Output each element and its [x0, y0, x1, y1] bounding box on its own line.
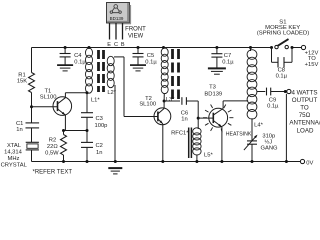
pin C leg of BD139 package — [115, 23, 117, 40]
wire C7 stem — [216, 48, 218, 54]
capacitor C7 — [211, 53, 222, 55]
wire bottom 0V rail — [32, 161, 301, 163]
svg-text:T3: T3 — [209, 84, 216, 90]
svg-text:ANTENNA/: ANTENNA/ — [289, 120, 320, 127]
svg-text:C2: C2 — [96, 143, 103, 149]
wire T1 emitter — [64, 115, 66, 131]
svg-text:MHz: MHz — [8, 156, 20, 162]
ground for C5 — [130, 64, 146, 66]
wire C4 stem — [64, 48, 66, 54]
terminal 0V — [300, 159, 304, 163]
svg-text:SL100: SL100 — [40, 95, 57, 101]
transistor package pictorial BD139 (front view) — [107, 3, 132, 25]
wire L2 top to T2 base — [114, 56, 124, 58]
node C2 bottom junction — [86, 160, 89, 163]
capacitor C9 — [266, 88, 268, 96]
wire crystal to bottom rail — [31, 150, 33, 162]
svg-text:1n: 1n — [96, 150, 102, 156]
svg-text:SL100: SL100 — [139, 101, 156, 107]
wire RFC1 drop — [197, 118, 199, 129]
wire L2 bottom to ground rail — [114, 85, 116, 162]
node T3 emitter junction — [220, 160, 223, 163]
inductor L3 winding — [161, 48, 168, 56]
svg-text:0.1µ: 0.1µ — [74, 59, 86, 65]
node C4 rail junction — [64, 46, 67, 49]
terminal output — [287, 89, 291, 93]
svg-text:0.1µ: 0.1µ — [267, 104, 279, 110]
wire L4 top stub — [250, 48, 252, 52]
transformer core 2 — [171, 49, 174, 59]
node R2 bottom junction — [62, 160, 65, 163]
ground for C7 — [208, 67, 226, 69]
svg-text:BD139: BD139 — [110, 16, 124, 21]
capacitor C5 — [133, 53, 144, 55]
svg-text:HEATSINK: HEATSINK — [226, 132, 252, 138]
resistor R2 — [61, 135, 67, 156]
wire C3 stem — [86, 93, 88, 113]
terminal +12V supply — [301, 45, 305, 49]
svg-text:XTAL: XTAL — [7, 143, 22, 149]
capacitor C6 — [181, 97, 183, 105]
capacitor C3 — [81, 112, 93, 114]
svg-text:+15V: +15V — [305, 62, 319, 68]
svg-text:FRONT: FRONT — [125, 27, 146, 33]
svg-text:GANG: GANG — [260, 145, 278, 151]
inductor L4 winding — [247, 50, 257, 60]
capacitor C8 — [277, 57, 279, 67]
svg-text:½J: ½J — [264, 138, 272, 145]
svg-text:L1*: L1* — [91, 98, 100, 104]
wire T3 base — [198, 117, 213, 119]
svg-text:0.1µ: 0.1µ — [276, 74, 288, 80]
inductor L5 winding — [193, 128, 201, 135]
node T2 emitter junction — [161, 160, 164, 163]
svg-text:15K: 15K — [17, 79, 27, 85]
node C7 rail junction — [215, 46, 218, 49]
node output junction — [284, 90, 287, 93]
svg-text:14,314: 14,314 — [4, 150, 23, 156]
node ground rail junction — [114, 160, 117, 163]
svg-text:L4*: L4* — [254, 122, 263, 128]
node switch right junction — [291, 46, 294, 49]
node L5 bottom junction — [195, 160, 198, 163]
svg-text:C3: C3 — [96, 116, 103, 122]
transistor Q T3 with heatsink rays — [209, 108, 228, 127]
transistor Q T1 — [53, 97, 72, 116]
svg-text:0.1µ: 0.1µ — [145, 59, 157, 65]
wire L3 bottom stub — [163, 93, 165, 101]
node L1 rail junction — [88, 46, 91, 49]
node emitter-R2 junction — [62, 129, 65, 132]
svg-text:VIEW: VIEW — [128, 34, 144, 40]
svg-text:(SPRING LOADED): (SPRING LOADED) — [257, 31, 309, 37]
svg-text:100p: 100p — [95, 123, 108, 129]
wire T1 base — [32, 106, 58, 108]
svg-text:OUTPUT: OUTPUT — [292, 97, 318, 104]
svg-text:0V: 0V — [306, 160, 313, 166]
svg-text:C7: C7 — [224, 53, 231, 59]
wire L4 tap to C9 — [257, 91, 265, 93]
node L1 bottom junction — [86, 91, 89, 94]
svg-text:4 WATTS: 4 WATTS — [291, 89, 317, 96]
wire T1 collector — [64, 93, 66, 98]
svg-text:CRYSTAL: CRYSTAL — [1, 163, 28, 169]
wire L5 to rail — [196, 155, 198, 162]
wire C8 right branch — [284, 61, 292, 63]
wire L4 bottom to tuning capacitor — [251, 118, 253, 140]
svg-text:C5: C5 — [147, 53, 154, 59]
svg-text:22Ω: 22Ω — [47, 144, 58, 150]
wire C3 to C2 — [86, 118, 88, 143]
variable capacitor VC1 gang — [247, 140, 257, 142]
inductor RFC1 core bars — [188, 128, 190, 159]
wire R2 top stub — [63, 131, 65, 135]
wire T2 emitter — [162, 124, 164, 162]
wire C5 stem — [137, 48, 139, 54]
pin E leg of BD139 package — [109, 23, 111, 40]
resistor R1 — [29, 73, 35, 93]
wire C6 right to T3 base node — [186, 100, 198, 102]
svg-text:0,5W: 0,5W — [45, 150, 59, 156]
wire C9 to output terminal — [271, 91, 285, 93]
capacitor C2 — [81, 141, 93, 143]
inductor L1 winding — [86, 48, 93, 57]
node gang bottom junction — [251, 160, 254, 163]
svg-text:C9: C9 — [269, 97, 276, 103]
node T2 collector junction — [163, 100, 166, 103]
node output return junction — [285, 160, 288, 163]
svg-text:0.1µ: 0.1µ — [222, 60, 234, 66]
wire R1 to base node — [31, 93, 33, 123]
wire R2 to rail — [63, 155, 65, 162]
svg-text:L3*: L3* — [166, 97, 175, 103]
switch S1 — [275, 45, 278, 48]
wire T2 collector — [163, 101, 165, 109]
svg-text:1n: 1n — [181, 116, 187, 122]
node C5 rail junction — [137, 46, 140, 49]
ground for C4 — [57, 64, 73, 66]
svg-text:L5*: L5* — [204, 152, 213, 158]
svg-text:TO: TO — [300, 105, 309, 112]
inductor L2 winding — [107, 56, 114, 65]
wire output to bottom rail — [285, 94, 287, 162]
wire C8 left branch — [271, 48, 273, 63]
pin B leg of BD139 package — [122, 23, 124, 40]
svg-text:*REFER TEXT: *REFER TEXT — [33, 169, 73, 175]
node L3 rail junction — [162, 46, 165, 49]
svg-text:C4: C4 — [74, 53, 82, 59]
svg-text:R2: R2 — [49, 138, 56, 144]
svg-text:BD139: BD139 — [204, 92, 222, 98]
wire C1 to crystal — [31, 128, 33, 142]
node T1 base junction — [30, 105, 33, 108]
wire gang to rail — [251, 144, 253, 161]
node C3-C2-emitter junction — [86, 129, 89, 132]
capacitor C4 — [60, 53, 71, 55]
wire C6 left — [164, 100, 180, 102]
crystal XTAL — [26, 141, 39, 143]
node T3 base junction — [197, 117, 200, 120]
node L4 rail junction — [249, 46, 252, 49]
svg-text:RFC1*: RFC1* — [171, 130, 189, 136]
wire C2 to rail — [86, 148, 88, 162]
wire T3 emitter — [221, 127, 223, 162]
svg-text:75Ω: 75Ω — [299, 112, 311, 119]
transistor Q T2 — [154, 108, 171, 125]
wire top supply rail — [32, 47, 272, 49]
svg-text:LOAD: LOAD — [297, 127, 314, 134]
wire T3 collector — [222, 101, 224, 109]
ground main symbol — [108, 167, 122, 169]
node switch left junction — [270, 46, 273, 49]
transformer core 1 — [97, 50, 100, 59]
svg-text:1n: 1n — [16, 127, 22, 133]
svg-text:R1: R1 — [18, 73, 25, 79]
svg-text:T1: T1 — [45, 88, 52, 94]
wire top rail right segment after switch — [292, 47, 302, 49]
capacitor C1 — [26, 122, 40, 124]
wire left column (rail to R1) — [31, 48, 33, 73]
